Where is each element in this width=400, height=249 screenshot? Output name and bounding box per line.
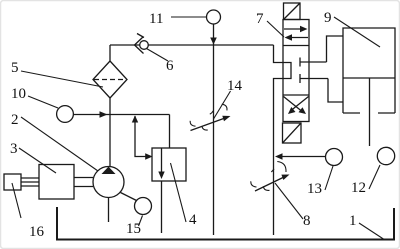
gauge line y114.5 xyxy=(73,114,169,116)
arrow down at node xyxy=(210,38,217,45)
leader 2 xyxy=(21,117,98,171)
valve top section arrows xyxy=(284,28,301,30)
svg-text:6: 6 xyxy=(166,58,174,74)
control box 4 xyxy=(152,148,186,181)
wire filter to pump xyxy=(109,98,111,167)
svg-text:14: 14 xyxy=(227,78,243,94)
leader 16 xyxy=(12,183,21,218)
pump triangle xyxy=(102,167,116,174)
filter F1 (5) diamond xyxy=(93,61,127,98)
leader 5 xyxy=(21,71,103,87)
valve 7 body xyxy=(283,20,309,122)
solenoid top xyxy=(284,3,301,20)
gauge 11 drop xyxy=(213,24,215,45)
svg-text:3: 3 xyxy=(10,141,18,157)
leader 6 xyxy=(147,49,169,62)
gauge 15 circle xyxy=(135,198,152,215)
leader 1 xyxy=(359,223,385,240)
filter dashed element xyxy=(94,79,126,81)
svg-text:8: 8 xyxy=(303,213,311,229)
wire filter top drop xyxy=(109,45,111,61)
arrow right into box4 xyxy=(145,153,152,160)
coupling lines 16-3 xyxy=(21,178,39,186)
cylinder 9 body xyxy=(343,28,395,113)
component 16 box xyxy=(4,174,21,190)
shaft motor-pump xyxy=(74,178,93,187)
svg-text:15: 15 xyxy=(126,221,141,237)
svg-text:7: 7 xyxy=(256,11,264,27)
svg-text:13: 13 xyxy=(307,181,322,197)
pump suction line xyxy=(108,198,110,223)
leader 11 xyxy=(171,16,206,18)
svg-text:5: 5 xyxy=(11,60,19,76)
cylinder bottom edges xyxy=(343,112,395,114)
gauge 13 circle xyxy=(326,149,343,166)
wire center drain line xyxy=(213,45,215,235)
motor 3 box xyxy=(39,165,74,200)
arrow right on gauge line xyxy=(100,111,108,118)
wire main pressure line y45 xyxy=(110,44,274,46)
throttle 14 arcs xyxy=(190,121,195,126)
gauge 15 tap line xyxy=(121,193,137,201)
svg-text:9: 9 xyxy=(324,10,332,26)
leader 9 xyxy=(334,17,380,47)
wire drop to box4 xyxy=(169,115,171,149)
gauge 13 line with left arrow xyxy=(282,156,326,158)
check valve 6 xyxy=(140,41,149,50)
leader 12 xyxy=(369,165,380,189)
pilot wire with arrows xyxy=(135,116,146,157)
solenoid bottom xyxy=(283,123,302,143)
svg-text:1: 1 xyxy=(349,213,357,229)
wire valve to cylinder bottom xyxy=(328,79,343,103)
cylinder rod xyxy=(369,78,371,146)
leader 4 xyxy=(171,163,187,222)
svg-text:2: 2 xyxy=(11,112,19,128)
gauge 11 circle xyxy=(207,10,221,24)
pump 2 circle xyxy=(93,167,124,198)
tank 1 outline xyxy=(57,207,394,240)
box4 internal line xyxy=(161,148,163,172)
valve divider 1 xyxy=(283,45,309,47)
throttle valve 14 arrow xyxy=(191,118,225,130)
svg-text:4: 4 xyxy=(189,212,197,228)
gauge 12 circle xyxy=(377,147,394,164)
wire valve to cylinder top xyxy=(327,36,344,62)
svg-text:11: 11 xyxy=(149,11,163,27)
leader 14 xyxy=(214,91,231,119)
leader 10 xyxy=(28,96,58,108)
wire supply to valve S-path and drain xyxy=(274,45,292,235)
valve port T-stubs xyxy=(300,58,328,84)
arrow down in box4 xyxy=(158,172,164,180)
valve divider 2 xyxy=(283,94,309,96)
arrow up pilot xyxy=(132,115,138,122)
svg-text:16: 16 xyxy=(29,224,45,240)
valve X section xyxy=(284,97,302,112)
leader 8 xyxy=(275,183,303,219)
throttle valve 8 arrow xyxy=(255,178,283,192)
svg-text:12: 12 xyxy=(351,180,366,196)
throttle 8 arcs xyxy=(251,181,257,187)
leader 15 xyxy=(139,216,143,227)
cylinder piston xyxy=(343,77,395,79)
box4 drain to tank xyxy=(161,181,163,233)
leader 7 xyxy=(267,21,284,37)
leader 13 xyxy=(325,166,333,190)
leader 3 xyxy=(19,148,56,173)
svg-text:10: 10 xyxy=(11,86,26,102)
gauge 10 circle xyxy=(57,106,74,123)
